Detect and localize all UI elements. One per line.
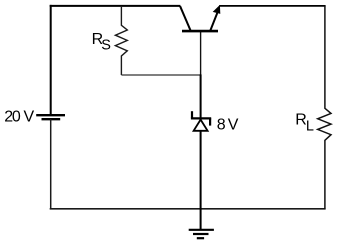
- zener diode D1 anode triangle: [194, 120, 208, 131]
- ground bar 3: [197, 237, 204, 239]
- wire base vertical upper: [200, 32, 202, 75]
- transistor Q1 base bar: [182, 30, 218, 33]
- wire top-right segment: [219, 5, 325, 7]
- zener diode D1 left wing: [191, 111, 193, 118]
- transistor Q1 collector: [180, 6, 191, 30]
- ground bar 2: [193, 233, 209, 235]
- transistor Q1 emitter: [210, 13, 217, 31]
- svg-text:20V: 20V: [4, 108, 34, 125]
- battery 20 V negative plate: [42, 118, 61, 120]
- wire base to zener: [200, 74, 202, 118]
- wire left vertical upper: [50, 5, 52, 114]
- transistor Q1 emitter arrow: [213, 5, 221, 14]
- wire left vertical lower: [50, 119, 52, 209]
- wire zener to ground: [200, 131, 202, 230]
- wire RS to base horizontal: [121, 74, 200, 76]
- svg-text:8V: 8V: [217, 117, 239, 134]
- resistor RS: [115, 6, 127, 75]
- zener diode D1 cathode bar: [191, 117, 211, 119]
- ground bar 1: [189, 229, 214, 231]
- battery 20 V positive plate: [36, 114, 65, 116]
- zener diode D1 right wing: [209, 118, 211, 125]
- wire right vertical with resistor RL: [318, 6, 331, 209]
- wire top-left segment: [50, 5, 181, 7]
- wire bottom: [50, 208, 326, 210]
